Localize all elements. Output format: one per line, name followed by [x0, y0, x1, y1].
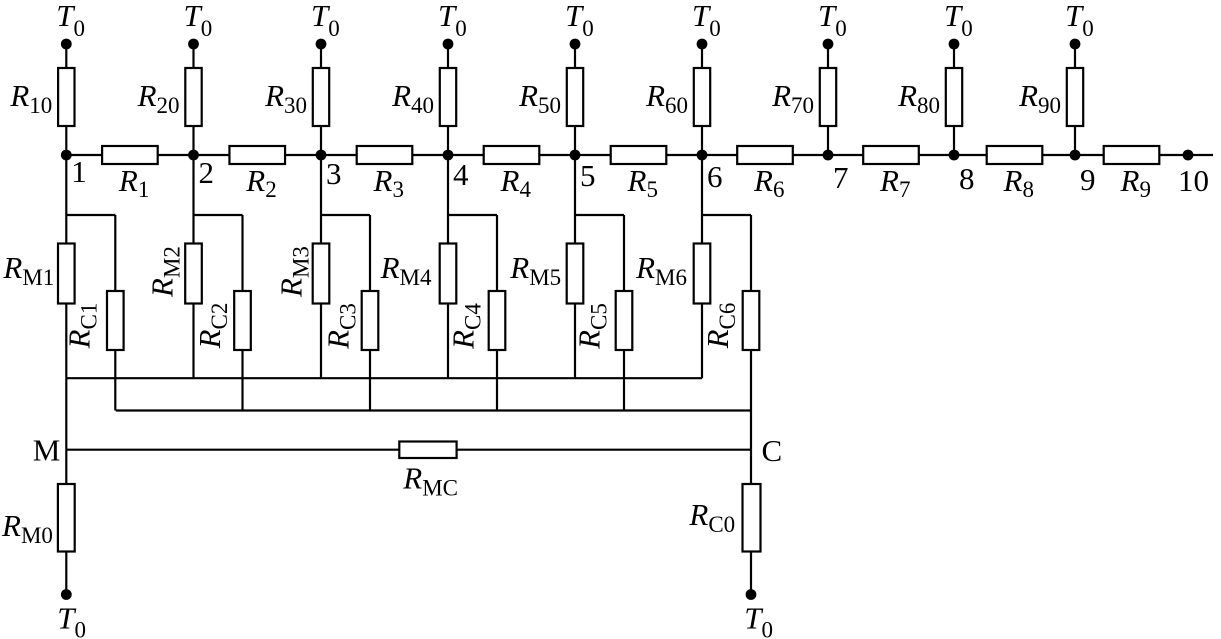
- svg-text:T0: T0: [57, 601, 86, 639]
- svg-text:RC4: RC4: [446, 303, 486, 350]
- svg-text:7: 7: [833, 160, 849, 195]
- svg-text:RC0: RC0: [688, 497, 735, 537]
- svg-text:RM1: RM1: [2, 250, 54, 290]
- svg-text:R8: R8: [1003, 163, 1034, 202]
- svg-text:RM3: RM3: [274, 246, 314, 298]
- svg-text:5: 5: [580, 158, 596, 193]
- svg-text:R50: R50: [518, 78, 561, 118]
- svg-text:RC5: RC5: [572, 303, 612, 350]
- svg-text:RC3: RC3: [321, 303, 361, 350]
- svg-text:T0: T0: [744, 601, 773, 639]
- svg-text:T0: T0: [438, 0, 467, 41]
- svg-text:C: C: [762, 433, 783, 468]
- svg-text:4: 4: [453, 157, 469, 192]
- svg-text:3: 3: [326, 156, 342, 191]
- svg-text:R10: R10: [9, 78, 52, 118]
- svg-text:R30: R30: [264, 78, 307, 118]
- svg-text:R5: R5: [627, 163, 658, 202]
- svg-text:RC1: RC1: [62, 303, 102, 350]
- svg-text:RM4: RM4: [380, 250, 432, 290]
- svg-text:R6: R6: [753, 163, 784, 202]
- svg-text:RM2: RM2: [145, 246, 185, 298]
- svg-text:1: 1: [71, 154, 87, 189]
- svg-text:T0: T0: [944, 0, 973, 41]
- svg-text:R2: R2: [245, 163, 276, 202]
- svg-text:RM5: RM5: [509, 250, 561, 290]
- svg-text:RM6: RM6: [635, 250, 687, 290]
- svg-text:9: 9: [1080, 162, 1096, 197]
- svg-text:R90: R90: [1018, 78, 1061, 118]
- svg-text:RMC: RMC: [402, 461, 458, 501]
- svg-text:R20: R20: [137, 78, 180, 118]
- svg-text:RC6: RC6: [700, 303, 740, 350]
- svg-text:M: M: [33, 433, 61, 468]
- svg-text:R40: R40: [391, 78, 434, 118]
- svg-text:T0: T0: [818, 0, 847, 41]
- svg-text:R3: R3: [373, 163, 404, 202]
- svg-text:T0: T0: [184, 0, 213, 41]
- svg-text:R1: R1: [118, 163, 149, 202]
- svg-text:2: 2: [199, 155, 215, 190]
- svg-text:R4: R4: [500, 163, 532, 202]
- svg-text:RC2: RC2: [192, 303, 232, 350]
- svg-text:6: 6: [707, 159, 723, 194]
- svg-text:T0: T0: [1065, 0, 1094, 41]
- svg-text:T0: T0: [311, 0, 340, 41]
- svg-text:R7: R7: [879, 163, 910, 202]
- svg-text:10: 10: [1178, 163, 1209, 198]
- svg-text:R70: R70: [771, 78, 814, 118]
- svg-text:T0: T0: [565, 0, 594, 41]
- svg-text:R80: R80: [897, 78, 940, 118]
- svg-text:T0: T0: [692, 0, 721, 41]
- svg-text:R60: R60: [645, 78, 688, 118]
- svg-text:8: 8: [959, 161, 975, 196]
- svg-text:T0: T0: [56, 0, 85, 41]
- svg-text:RM0: RM0: [1, 508, 53, 548]
- svg-text:R9: R9: [1120, 163, 1151, 202]
